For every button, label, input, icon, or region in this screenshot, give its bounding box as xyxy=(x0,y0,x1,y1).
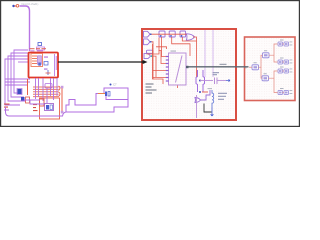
svg-text:C7: C7 xyxy=(113,83,117,87)
